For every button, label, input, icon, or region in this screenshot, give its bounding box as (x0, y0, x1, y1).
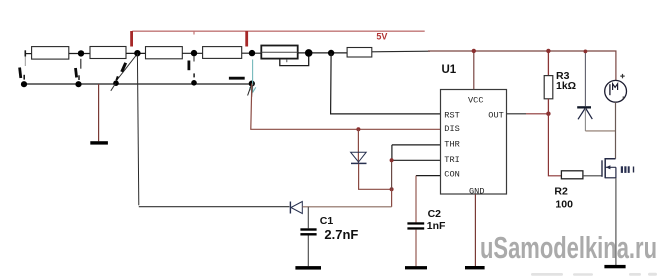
wire DIS net (251, 83, 441, 129)
node junction (113, 80, 119, 86)
node junction (328, 50, 334, 56)
svg-text:THR: THR (444, 140, 459, 150)
resistor 1 (32, 47, 69, 60)
wire from D1 (359, 164, 392, 190)
probe tick P1 (130, 31, 133, 47)
node junction (21, 81, 27, 87)
capacitor C1 (300, 207, 316, 266)
node junction (584, 50, 588, 54)
wire RST net (331, 53, 441, 114)
node junction (472, 49, 476, 53)
svg-text:C2: C2 (428, 208, 442, 220)
faint watermark remnant (531, 273, 657, 276)
wire D3 to drain (585, 130, 616, 132)
wire OUT (507, 113, 549, 115)
wire upper red line (132, 31, 424, 35)
wire (298, 52, 347, 54)
wire (69, 53, 90, 55)
node junction (305, 49, 313, 57)
wire 5V rail (428, 51, 616, 80)
svg-text:TRI: TRI (444, 155, 459, 165)
wire C1 net long (137, 53, 289, 206)
diode D2 (290, 202, 302, 214)
wire (242, 52, 262, 54)
resistor 4 (203, 47, 242, 59)
svg-text:2.7nF: 2.7nF (324, 227, 358, 242)
node junction (546, 112, 550, 116)
svg-text:R2: R2 (554, 185, 568, 197)
wire THR/TRI link (392, 145, 441, 189)
ground (405, 266, 427, 269)
node junction (249, 81, 255, 87)
svg-text:CON: CON (444, 170, 459, 180)
node junction (78, 50, 84, 56)
wire source to ground (615, 178, 617, 265)
node junction (191, 80, 197, 86)
potentiometer (tapped resistor) (261, 46, 308, 66)
wire VCC (473, 51, 475, 89)
svg-text:uSamodelkina.ru: uSamodelkina.ru (480, 230, 657, 265)
svg-text:GND: GND (469, 187, 484, 197)
wire to D1 (357, 129, 359, 163)
wire (302, 206, 391, 208)
svg-text:1nF: 1nF (427, 220, 446, 232)
cursor arrow (teal) at tap node (248, 60, 256, 98)
wire gate (583, 175, 602, 177)
svg-text:100: 100 (555, 199, 573, 211)
switch S1 (20, 50, 26, 79)
node junction (356, 127, 360, 131)
svg-text:5V: 5V (376, 32, 387, 42)
switch S2 (76, 59, 81, 80)
ground (90, 141, 108, 144)
node junction (249, 50, 255, 56)
transistor Q1 (n-MOSFET) (602, 159, 634, 179)
ground (465, 266, 485, 269)
svg-text:VCC: VCC (468, 96, 483, 106)
node junction (75, 81, 81, 87)
capacitor C2 (407, 222, 424, 266)
svg-text:RST: RST (444, 110, 459, 120)
diode D3 flyback (577, 51, 592, 130)
switch S4 (189, 56, 194, 77)
probe tick P2 (245, 31, 248, 47)
wire GND down (474, 194, 476, 266)
switch S3 (diagonal) (111, 56, 136, 91)
wire motor bottom (615, 102, 617, 159)
node junction (546, 49, 550, 53)
wire down to C1 net (391, 189, 393, 207)
wire CON stub (416, 175, 441, 177)
wire bottom bus (24, 83, 252, 85)
node junction (134, 50, 140, 56)
svg-text:DIS: DIS (444, 124, 459, 134)
wire (372, 50, 430, 53)
resistor 2 (90, 47, 126, 59)
node junction (191, 50, 197, 56)
wire (182, 52, 202, 54)
diode D1 (351, 152, 367, 163)
resistor R2 (561, 171, 583, 179)
wire ground branch left (98, 84, 100, 141)
svg-text:C1: C1 (320, 215, 334, 227)
svg-text:U1: U1 (442, 64, 457, 76)
wire R2 branch (548, 114, 561, 176)
node junction (390, 187, 394, 191)
node junction (390, 158, 394, 162)
op-amp/timer U1 box (441, 90, 507, 195)
wire C2 drop (415, 176, 417, 223)
svg-text:OUT: OUT (488, 110, 503, 120)
wire (126, 52, 146, 54)
wire top rail left stub (25, 53, 31, 55)
resistor R3 (544, 51, 553, 114)
motor M1 (605, 74, 627, 102)
ground (604, 265, 625, 268)
svg-text:1kΩ: 1kΩ (556, 80, 576, 92)
resistor 3 (146, 47, 183, 59)
ground (295, 266, 321, 270)
resistor 6 (347, 48, 372, 58)
switch S5 (closed blade) (229, 77, 245, 80)
